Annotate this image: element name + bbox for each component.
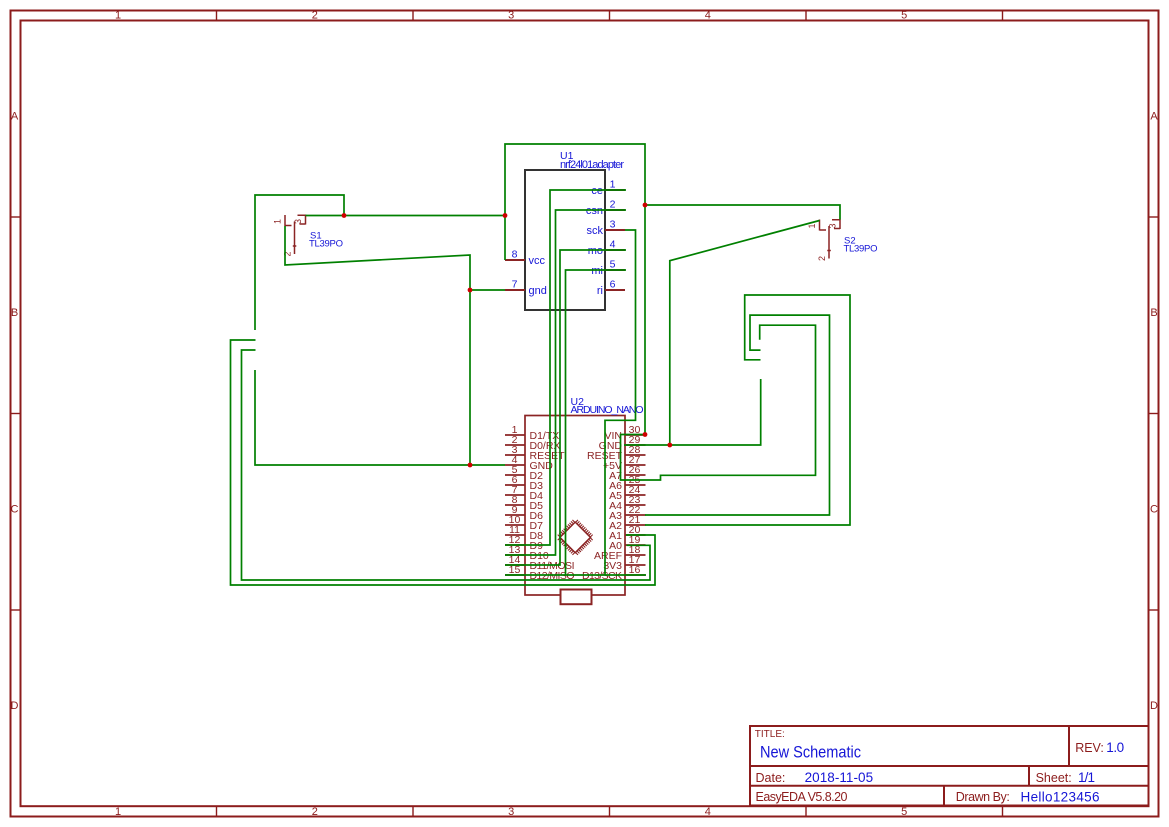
wire U2 D11/MOSI to U1 mo (505, 250, 626, 565)
wire U1 sck down to D13/SCK rail (605, 230, 636, 575)
wire over-the-top loop from vcc node to U2 VIN (505, 144, 645, 435)
wire vcc node down to U1 pin8 vcc (504, 216, 506, 261)
svg-text:7: 7 (512, 279, 518, 291)
svg-text:B: B (11, 307, 18, 319)
U1 pin names (529, 185, 604, 297)
wire S1 pin3 to U1 vcc node (306, 215, 506, 217)
S2 reference label (844, 235, 878, 254)
svg-text:2: 2 (610, 199, 616, 211)
svg-text:REV:: REV: (1075, 741, 1104, 755)
switch S2 TL39PO symbol (820, 220, 841, 259)
svg-text:3: 3 (508, 806, 514, 818)
svg-text:2018-11-05: 2018-11-05 (805, 770, 874, 785)
wire U2 D12/MISO rail (505, 574, 646, 576)
op-amp U1 nrf24l01adapter symbol body (525, 170, 605, 310)
wire S2 pin1 slant to GND (670, 221, 820, 446)
svg-text:gnd: gnd (529, 285, 547, 297)
svg-text:1: 1 (115, 806, 121, 818)
svg-text:D: D (11, 700, 19, 712)
wire U2 A3 right loop (645, 315, 830, 515)
svg-text:ce: ce (591, 185, 603, 197)
svg-text:B: B (1150, 307, 1157, 319)
wire MISO riser to U1 mi (566, 270, 627, 575)
svg-text:D: D (1150, 700, 1158, 712)
svg-text:2: 2 (312, 806, 318, 818)
wire U2 A2 right outer loop (645, 295, 850, 525)
svg-text:A: A (1150, 110, 1158, 122)
wire U2 D9 to U1 ce (505, 190, 626, 545)
U1 pin stubs (505, 190, 625, 290)
svg-text:EasyEDA V5.8.20: EasyEDA V5.8.20 (756, 790, 848, 804)
junction node J1 (342, 213, 347, 218)
wire left loop A0: U2 pin19 to dangling end (242, 350, 651, 580)
svg-text:8: 8 (512, 249, 518, 261)
wire S1 pin1 down and slant to gnd rail (285, 226, 470, 465)
U2 chip icon (QFP drawing) (555, 517, 595, 557)
junction node J5 (667, 443, 672, 448)
wire branch to S2 pin3 (645, 205, 840, 220)
junction node J4 (643, 432, 648, 437)
junction node J3 (643, 203, 648, 208)
svg-text:nrf24l01adapter: nrf24l01adapter (560, 159, 624, 171)
U2 reference designator label (571, 396, 644, 416)
U1 reference designator label (560, 150, 624, 171)
svg-text:3: 3 (508, 10, 514, 22)
svg-text:4: 4 (610, 239, 616, 251)
svg-text:csn: csn (586, 205, 603, 217)
U2 ARDUINO_NANO symbol body (525, 416, 625, 596)
U1 pin numbers (512, 179, 616, 291)
junction node J6 (468, 288, 473, 293)
svg-text:1: 1 (115, 10, 121, 22)
U2 pin names (530, 430, 623, 582)
svg-text:mi: mi (591, 265, 603, 277)
wire gnd rail bottom to U2 pin4 GND (255, 370, 505, 465)
svg-text:Sheet:: Sheet: (1036, 771, 1072, 785)
U2 pin stubs (505, 435, 646, 575)
wire U2 GND pin29 to right riser (624, 379, 761, 445)
wire left loop A1: U2 pin20 to dangling end (231, 340, 656, 585)
svg-text:TL39PO: TL39PO (309, 238, 343, 249)
svg-text:sck: sck (587, 225, 604, 237)
svg-text:1.0: 1.0 (1106, 740, 1124, 755)
svg-text:5: 5 (901, 806, 907, 818)
svg-text:ri: ri (597, 285, 603, 297)
svg-text:TITLE:: TITLE: (755, 729, 785, 740)
svg-text:Date:: Date: (756, 771, 786, 785)
title block (750, 726, 1149, 806)
svg-text:1: 1 (273, 219, 283, 224)
svg-text:1/1: 1/1 (1078, 770, 1095, 785)
junction node J7 (468, 463, 473, 468)
wire gnd rail to U1 pin7 gnd (470, 289, 505, 291)
U2 USB connector drawing (561, 590, 592, 605)
svg-text:3: 3 (828, 223, 838, 228)
svg-text:C: C (11, 503, 19, 515)
junction node J2 (503, 213, 508, 218)
svg-text:ARDUINO_NANO: ARDUINO_NANO (571, 404, 644, 416)
wire U2 VIN stub link and A7 loop (621, 325, 816, 480)
switch S1 TL39PO symbol (285, 215, 306, 254)
svg-text:A: A (11, 110, 19, 122)
svg-text:3: 3 (293, 219, 303, 224)
svg-text:2: 2 (312, 10, 318, 22)
svg-text:1: 1 (610, 179, 616, 191)
svg-text:Hello123456: Hello123456 (1021, 790, 1100, 805)
svg-text:TL39PO: TL39PO (844, 243, 878, 254)
svg-text:5: 5 (901, 10, 907, 22)
wire U2 D10 to U1 csn (505, 210, 626, 555)
svg-text:2: 2 (817, 256, 827, 261)
svg-text:New Schematic: New Schematic (760, 743, 861, 761)
svg-text:3: 3 (610, 219, 616, 231)
S1 reference label (309, 230, 343, 249)
svg-text:5: 5 (610, 259, 616, 271)
svg-text:4: 4 (705, 10, 711, 22)
svg-text:4: 4 (705, 806, 711, 818)
svg-text:2: 2 (283, 251, 293, 256)
U2 pin numbers (509, 424, 641, 576)
svg-text:mo: mo (588, 245, 603, 257)
wire S1 loop to node at 344,215 (255, 195, 344, 330)
svg-text:Drawn By:: Drawn By: (956, 790, 1010, 804)
svg-text:C: C (1150, 503, 1158, 515)
svg-text:vcc: vcc (529, 255, 546, 267)
svg-text:6: 6 (610, 279, 616, 291)
